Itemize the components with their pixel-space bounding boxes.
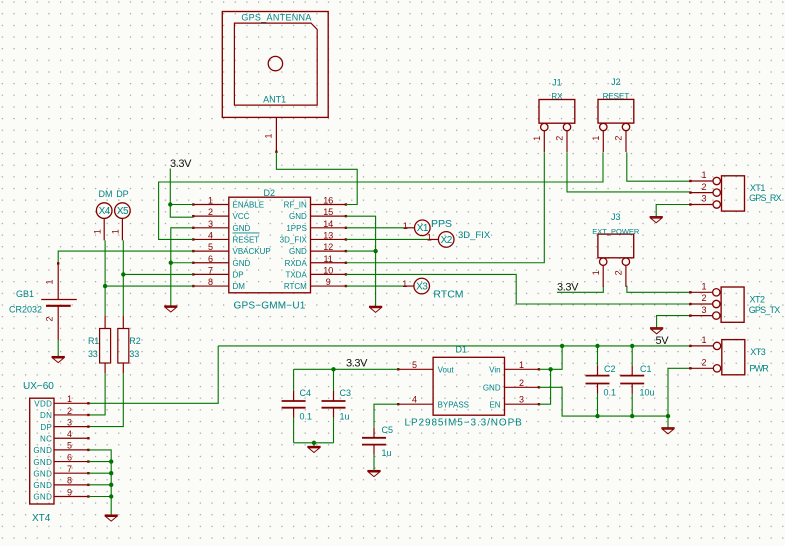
svg-text:1u: 1u (340, 412, 350, 422)
svg-text:1u: 1u (382, 448, 392, 458)
svg-text:GPS_RX: GPS_RX (749, 193, 782, 203)
svg-text:RESET: RESET (233, 235, 260, 244)
svg-text:1: 1 (45, 279, 55, 284)
svg-text:RXDA: RXDA (285, 259, 308, 268)
svg-text:9: 9 (326, 277, 331, 287)
svg-text:BYPASS: BYPASS (438, 400, 469, 409)
svg-text:2: 2 (701, 358, 706, 368)
svg-text:1: 1 (701, 335, 706, 345)
svg-text:3.3V: 3.3V (346, 357, 368, 369)
svg-text:2: 2 (614, 270, 624, 275)
svg-text:4: 4 (208, 230, 213, 240)
svg-text:2: 2 (208, 207, 213, 217)
svg-text:10: 10 (323, 265, 333, 275)
svg-text:7: 7 (208, 265, 213, 275)
svg-text:1: 1 (92, 229, 102, 234)
svg-text:XT2: XT2 (750, 294, 766, 304)
svg-text:DM: DM (233, 282, 246, 291)
svg-text:1: 1 (591, 270, 601, 275)
svg-text:RX: RX (551, 92, 563, 101)
svg-text:PPS: PPS (431, 218, 452, 230)
svg-text:1: 1 (591, 136, 601, 141)
svg-text:33: 33 (129, 349, 139, 359)
svg-text:7: 7 (67, 464, 72, 474)
svg-text:UX−60: UX−60 (23, 381, 54, 392)
svg-text:2: 2 (67, 406, 72, 416)
svg-text:1: 1 (402, 279, 407, 289)
svg-text:X5: X5 (117, 206, 129, 217)
svg-text:ENABLE: ENABLE (233, 201, 265, 210)
svg-text:CR2032: CR2032 (9, 305, 42, 315)
svg-text:GND: GND (33, 481, 52, 490)
svg-text:1: 1 (701, 282, 706, 292)
svg-text:5: 5 (67, 441, 72, 451)
svg-text:10u: 10u (640, 387, 655, 397)
svg-text:3.3V: 3.3V (557, 282, 579, 294)
svg-text:Vin: Vin (489, 365, 500, 374)
svg-text:DN: DN (40, 411, 52, 420)
svg-text:1: 1 (519, 360, 524, 370)
svg-text:1: 1 (111, 229, 121, 234)
svg-text:TXDA: TXDA (285, 270, 307, 279)
svg-text:GND: GND (289, 212, 307, 221)
svg-text:PWR: PWR (749, 364, 769, 374)
svg-text:VCC: VCC (233, 212, 250, 221)
svg-text:J1: J1 (552, 77, 562, 87)
svg-text:2: 2 (701, 182, 706, 192)
svg-text:GPS_TX: GPS_TX (749, 305, 781, 315)
svg-text:GND: GND (33, 458, 52, 467)
svg-text:3: 3 (67, 417, 72, 427)
svg-text:1: 1 (701, 170, 706, 180)
svg-text:VBACKUP: VBACKUP (233, 247, 271, 256)
svg-text:GND: GND (33, 469, 52, 478)
svg-text:3: 3 (701, 194, 706, 204)
svg-text:4: 4 (67, 429, 72, 439)
svg-text:GB1: GB1 (16, 289, 34, 299)
svg-text:RTCM: RTCM (284, 282, 307, 291)
svg-text:RTCM: RTCM (433, 289, 463, 301)
svg-text:1: 1 (264, 133, 274, 138)
svg-text:C2: C2 (604, 364, 616, 374)
svg-text:VDD: VDD (34, 400, 52, 409)
svg-text:RESET: RESET (603, 92, 630, 101)
svg-text:X2: X2 (441, 235, 453, 246)
svg-text:J3: J3 (611, 212, 621, 222)
svg-text:GND: GND (33, 493, 52, 502)
svg-text:GND: GND (233, 224, 251, 233)
svg-text:RF_IN: RF_IN (284, 201, 307, 210)
svg-text:1: 1 (67, 394, 72, 404)
svg-text:DP: DP (40, 423, 52, 432)
svg-text:33: 33 (88, 349, 98, 359)
svg-text:2: 2 (45, 316, 55, 321)
svg-text:14: 14 (323, 219, 333, 229)
svg-text:3D_FIX: 3D_FIX (458, 230, 491, 241)
svg-text:R2: R2 (129, 336, 141, 346)
svg-text:GND: GND (289, 247, 307, 256)
svg-text:R1: R1 (88, 336, 99, 346)
svg-text:8: 8 (208, 277, 213, 287)
svg-text:0.1: 0.1 (300, 412, 313, 422)
svg-text:1: 1 (208, 196, 213, 206)
svg-text:5: 5 (412, 360, 417, 370)
svg-text:6: 6 (208, 254, 213, 264)
svg-text:DM: DM (99, 189, 113, 199)
svg-text:12: 12 (323, 242, 333, 252)
svg-text:15: 15 (323, 207, 333, 217)
svg-text:2: 2 (701, 293, 706, 303)
svg-text:3: 3 (701, 305, 706, 315)
svg-text:0.1: 0.1 (604, 387, 617, 397)
svg-text:11: 11 (324, 254, 333, 264)
svg-text:5: 5 (208, 242, 213, 252)
svg-text:2: 2 (519, 378, 524, 388)
svg-text:Vout: Vout (438, 365, 455, 374)
svg-text:5V: 5V (656, 335, 670, 347)
svg-text:2: 2 (555, 136, 565, 141)
svg-text:GND: GND (233, 259, 251, 268)
svg-text:EN: EN (489, 400, 500, 409)
svg-text:DP: DP (233, 270, 244, 279)
svg-text:1: 1 (427, 232, 432, 242)
svg-text:6: 6 (67, 452, 72, 462)
svg-text:D2: D2 (264, 188, 276, 198)
svg-text:13: 13 (323, 230, 333, 240)
svg-text:8: 8 (67, 476, 72, 486)
svg-text:4: 4 (412, 395, 417, 405)
svg-text:C3: C3 (340, 388, 352, 398)
svg-text:ANT1: ANT1 (263, 94, 286, 104)
svg-text:XT3: XT3 (750, 347, 766, 357)
svg-text:LP2985IM5−3.3/NOPB: LP2985IM5−3.3/NOPB (405, 418, 523, 429)
svg-text:3: 3 (208, 219, 213, 229)
svg-text:DP: DP (116, 189, 129, 199)
svg-text:1: 1 (403, 221, 408, 231)
svg-text:GPS−GMM−U1: GPS−GMM−U1 (234, 301, 306, 312)
svg-text:GND: GND (33, 446, 52, 455)
svg-text:9: 9 (67, 487, 72, 497)
svg-text:XT1: XT1 (750, 183, 766, 193)
svg-text:1PPS: 1PPS (286, 224, 306, 233)
svg-text:GND: GND (483, 383, 501, 392)
svg-text:X4: X4 (99, 206, 111, 217)
svg-text:2: 2 (614, 136, 624, 141)
svg-text:NC: NC (40, 434, 52, 443)
svg-text:3.3V: 3.3V (170, 158, 192, 170)
svg-text:3: 3 (519, 395, 524, 405)
svg-text:16: 16 (323, 196, 333, 206)
svg-text:GPS_ANTENNA: GPS_ANTENNA (241, 12, 311, 22)
svg-text:EXT_POWER: EXT_POWER (592, 227, 640, 236)
svg-text:C4: C4 (300, 388, 312, 398)
svg-text:3D_FIX: 3D_FIX (280, 235, 308, 244)
svg-text:X3: X3 (416, 281, 428, 292)
svg-text:XT4: XT4 (32, 513, 51, 524)
svg-text:1: 1 (532, 136, 542, 141)
svg-text:J2: J2 (611, 77, 621, 87)
svg-text:C5: C5 (382, 425, 394, 435)
svg-text:C1: C1 (640, 364, 652, 374)
